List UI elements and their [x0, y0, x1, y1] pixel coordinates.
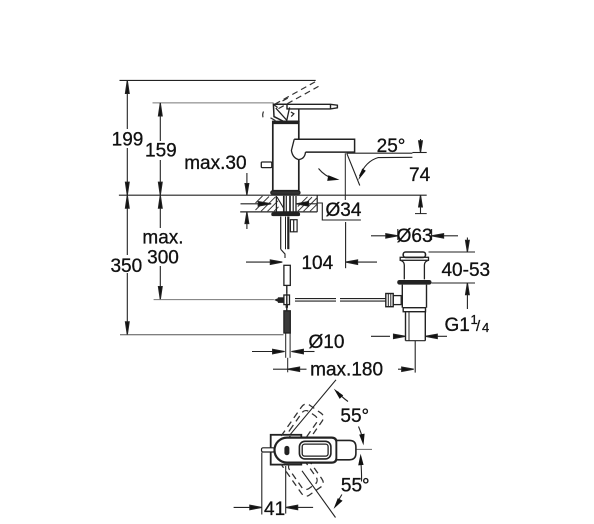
mounting hole and shank through deck	[276, 196, 296, 213]
handle cutout	[299, 441, 331, 459]
Diameter 34 arrows	[241, 202, 318, 207]
dimension max.180	[273, 341, 415, 373]
svg-text:104: 104	[301, 253, 333, 274]
countertop deck	[119, 195, 427, 213]
drain neck	[400, 260, 404, 279]
faucet body	[271, 122, 300, 195]
25 degree spout angle	[347, 152, 413, 154]
lever in raised position (dashed)	[263, 81, 319, 120]
svg-text:74: 74	[409, 165, 431, 186]
svg-text:G1: G1	[445, 315, 470, 336]
dimension 40-53	[429, 238, 476, 310]
55 deg lower label and leaders	[360, 460, 363, 482]
drain body	[402, 285, 426, 341]
svg-text:199: 199	[112, 130, 144, 151]
spout block (top view)	[337, 440, 356, 459]
dimension diameter 63	[371, 229, 458, 240]
drain flange ring	[397, 280, 431, 285]
rotated handle dashed (lower, +55deg)	[281, 450, 325, 498]
svg-text:4: 4	[482, 320, 489, 335]
mounting nut under deck	[271, 213, 300, 217]
rotated handle dashed (upper, -55deg)	[281, 402, 325, 450]
drain rod coupling nut	[386, 294, 401, 307]
dimension 74	[412, 139, 426, 214]
svg-text:max.: max.	[142, 228, 183, 249]
supply hose / pop-up rod upper segment	[281, 217, 289, 259]
vertical line from spout outlet	[344, 153, 346, 200]
svg-text:Ø63: Ø63	[397, 226, 433, 247]
svg-text:Ø34: Ø34	[326, 200, 362, 221]
drain pop-up waste: plug cap	[400, 252, 428, 279]
pop-up rod (top view)	[262, 448, 275, 452]
dimension diameter 10	[252, 349, 315, 354]
hose nipple	[290, 220, 297, 232]
cartridge dot (black pill)	[284, 446, 289, 455]
lever handle (horizontal)	[287, 104, 337, 109]
linkage cross fitting	[274, 293, 290, 311]
reference line for 159	[153, 102, 274, 104]
svg-text:55°: 55°	[341, 475, 370, 496]
handle base (faceted joint)	[273, 104, 298, 121]
svg-text:25°: 25°	[377, 136, 406, 157]
horizontal centerline	[330, 448, 372, 450]
faucet capsule body (top view)	[275, 438, 337, 463]
water flow arrow	[319, 169, 335, 179]
svg-text:159: 159	[145, 141, 177, 162]
svg-text:40-53: 40-53	[441, 260, 490, 281]
svg-text:Ø10: Ø10	[309, 332, 345, 353]
top reference line at handle-up height	[120, 79, 316, 81]
thread size G 1 1/4	[371, 334, 447, 339]
dimension 104	[246, 222, 377, 268]
spout	[291, 139, 354, 159]
pop-up rod middle segment	[284, 265, 290, 293]
Diameter 34 label with leader	[317, 203, 361, 220]
dimension 159	[158, 103, 162, 195]
55 deg upper label and leaders	[338, 392, 349, 402]
svg-text:max.180: max.180	[310, 359, 383, 380]
55 deg upper: rotated centerline	[291, 380, 337, 434]
deck hatching	[256, 196, 318, 211]
pop-up rod lower segment	[284, 311, 290, 373]
55 deg lower: rotated centerline	[302, 471, 336, 518]
350 bottom reference line	[120, 334, 284, 336]
rear mounting plate	[271, 435, 302, 465]
dimension max.300	[158, 195, 162, 299]
dimension 41	[234, 453, 314, 515]
svg-text:350: 350	[110, 256, 142, 277]
dimension 199	[125, 80, 129, 195]
svg-text:55°: 55°	[340, 406, 369, 427]
horizontal pop-up linkage rod	[154, 299, 386, 302]
dimension 350	[125, 195, 129, 335]
svg-text:max.30: max.30	[184, 153, 246, 174]
svg-text:300: 300	[147, 248, 179, 269]
svg-text:41: 41	[264, 499, 285, 520]
pop-up rod knob at rear	[261, 162, 273, 168]
